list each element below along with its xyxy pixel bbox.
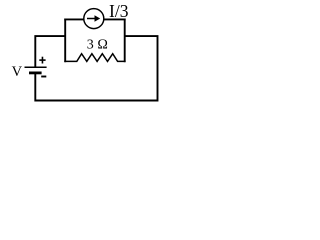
svg-text:3 Ω: 3 Ω — [87, 38, 108, 53]
node A vertical wire (left side of parallel branches) — [64, 19, 66, 63]
wire: right link from node B, right side and bottom return to battery — [35, 36, 157, 100]
svg-text:I/3: I/3 — [109, 1, 129, 21]
current source U1 (circle) — [84, 9, 104, 29]
wire: top branch left segment — [64, 18, 83, 20]
battery V: negative plate (short, thick) — [29, 72, 42, 75]
battery V: positive plate (long) — [25, 66, 47, 68]
resistor R1 (zigzag) — [64, 54, 125, 62]
label I/3 — [109, 1, 129, 21]
current source arrow — [87, 15, 100, 21]
wire: top branch right segment — [104, 18, 126, 20]
node B vertical wire (right side of parallel branches) — [124, 19, 126, 63]
battery plus polarity mark — [39, 57, 45, 64]
svg-text:V: V — [12, 64, 23, 80]
label V — [12, 64, 23, 80]
label 3 Ohm — [87, 38, 108, 53]
battery minus polarity mark — [41, 76, 46, 78]
wire: battery positive lead up and left link to node A — [35, 36, 65, 67]
